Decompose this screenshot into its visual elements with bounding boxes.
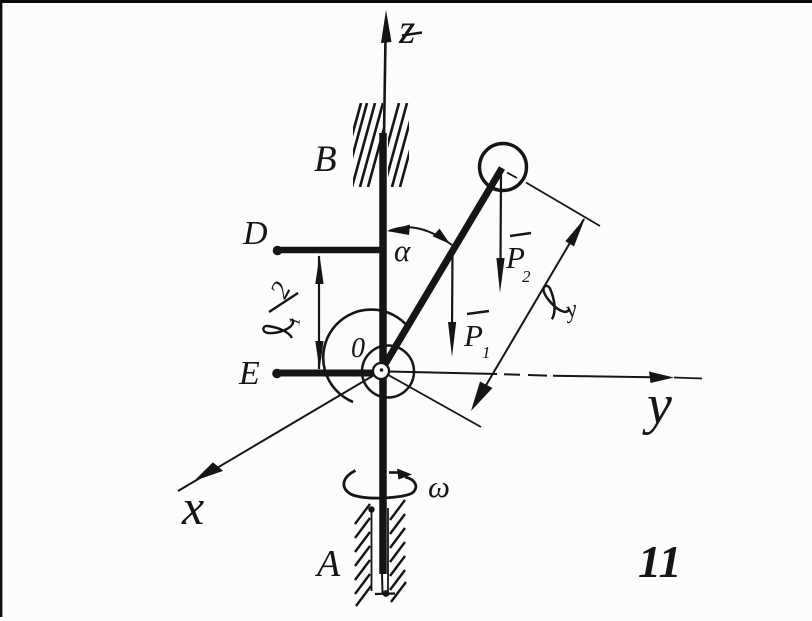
alpha arc left arrowhead [387,225,410,236]
force P2 arrowhead [496,258,504,293]
z-axis arrowhead [381,10,392,43]
omega rotation arrow tail [389,471,402,474]
label l_y rotated [536,281,570,320]
dimension line l1/2 [318,256,320,369]
bearing A right wall [387,508,389,592]
dimension line l_y [475,219,584,404]
dimension arrow up [315,255,323,284]
svg-text:B: B [314,139,337,180]
dimension arrow down [315,341,323,370]
svg-text:z: z [398,7,415,53]
force P1 arrowhead [448,322,456,357]
origin pivot white circle [373,363,389,379]
svg-text:A: A [314,543,341,585]
svg-text:E: E [238,355,260,392]
force P2 line [499,172,502,262]
alpha angle arc [389,227,452,245]
dimension l_y upper arrowhead [565,218,585,246]
rod from O to ball [381,168,502,371]
svg-text:y: y [642,374,672,436]
frame top border [0,0,812,3]
z-axis line [384,38,386,135]
y-axis solid segment [389,372,497,375]
rod E end dot [272,369,282,379]
z letter stroke bar [402,33,422,36]
alpha arc right arrowhead [433,229,450,244]
bearing A left wall [371,509,373,591]
label P2 bar [510,233,531,236]
force P1 line [451,255,454,330]
bearing A wall dot [368,506,374,512]
svg-text:D: D [242,215,268,252]
extension line from origin (dimension) [383,372,481,427]
y-axis dashes [504,373,520,376]
omega rotation arrowhead [397,469,412,480]
svg-text:1: 1 [482,343,491,362]
omega rotation arc [344,471,416,499]
rod D end dot [273,246,283,256]
y-axis arrowhead [649,372,674,384]
x-axis line [178,371,381,491]
svg-text:x: x [181,479,204,535]
svg-text:α: α [394,233,411,268]
svg-text:0: 0 [351,333,365,364]
x-axis arrowhead [194,462,223,481]
bearing A left hatching [355,504,371,606]
shaft bottom tick [375,592,395,595]
extension dash from ball center [507,173,517,179]
svg-text:2: 2 [522,267,531,286]
label l1/2 rotated [263,277,304,338]
svg-text:11: 11 [638,536,681,587]
rod D horizontal [277,247,385,254]
svg-text:ω: ω [428,469,450,504]
label P1 bar [467,311,489,314]
bearing A right hatching [390,500,406,602]
svg-text:P: P [463,318,483,353]
rod E horizontal [277,370,378,377]
shaft thin lower end [381,574,384,593]
origin center dot [380,368,384,372]
frame left border [0,0,2,617]
shaft bottom dot [383,590,390,597]
bearing B right hatching [376,103,423,187]
dimension l_y lower arrowhead [471,382,493,412]
y-axis overshoot [674,378,702,379]
ball circle [480,144,527,191]
y-axis main segment [553,376,670,378]
bearing B left hatching [338,103,391,187]
shaft (thick) [379,133,387,574]
extension line from ball [526,183,600,227]
inner circle around origin [362,346,414,398]
outer arc around origin [323,310,409,402]
